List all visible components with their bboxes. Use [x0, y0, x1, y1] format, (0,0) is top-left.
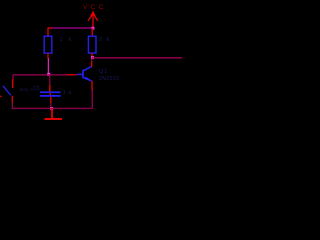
node junction dot collector — [91, 56, 94, 59]
svg-text:k: k — [107, 37, 110, 43]
svg-text:2N2222: 2N2222 — [99, 76, 120, 82]
svg-text:k: k — [69, 37, 72, 43]
node junction dot base node — [47, 73, 50, 76]
switch S1 top pin — [12, 75, 14, 89]
label S1 — [20, 87, 34, 92]
node junction dot at VCC/R2 — [91, 27, 94, 30]
wire collector pin — [91, 59, 93, 68]
wire VCC rail y=28 — [47, 27, 93, 29]
switch S1 bottom pin — [11, 96, 13, 103]
wire R1 bottom pin — [47, 53, 49, 58]
resistor R2 — [88, 36, 96, 53]
wire C1 bottom pin — [50, 97, 52, 108]
wire base net horizontal y=75 — [13, 74, 67, 76]
wire base node down to C1 — [49, 75, 51, 92]
svg-text:u: u — [69, 90, 72, 96]
transistor Q1 — [77, 67, 92, 81]
svg-text:Key A: Key A — [20, 87, 34, 92]
label R1 value — [60, 37, 72, 43]
wire ground rail y=108 — [12, 89, 92, 108]
svg-text:1: 1 — [60, 37, 63, 43]
wire R2 bottom pin — [91, 53, 93, 57]
wire R1 to base node — [47, 58, 49, 75]
node junction dot ground rail — [50, 107, 53, 110]
power symbol VCC arrow — [88, 11, 98, 29]
resistor R1 — [44, 36, 52, 53]
label C1 — [34, 86, 41, 92]
svg-text:C1: C1 — [34, 86, 41, 92]
switch S1 lever — [3, 86, 11, 96]
svg-text:2: 2 — [99, 37, 102, 43]
capacitor C1 — [40, 91, 61, 96]
label C1 value — [63, 90, 72, 96]
wire emitter pin — [91, 81, 93, 90]
svg-text:1: 1 — [63, 90, 66, 96]
switch S1 left stub — [0, 95, 2, 97]
wire output net y=57.5 — [92, 57, 182, 59]
node VCC label — [83, 4, 107, 11]
wire R1 top pin — [47, 28, 49, 36]
svg-text:VCC: VCC — [83, 4, 107, 11]
svg-text:Q1: Q1 — [99, 69, 108, 75]
label Q1 — [99, 69, 108, 75]
resistor R2 top pin — [91, 28, 93, 36]
label R2 value — [99, 37, 110, 43]
ground symbol — [44, 109, 62, 120]
wire base pin red — [66, 74, 77, 76]
label Q1 part number — [99, 76, 120, 82]
